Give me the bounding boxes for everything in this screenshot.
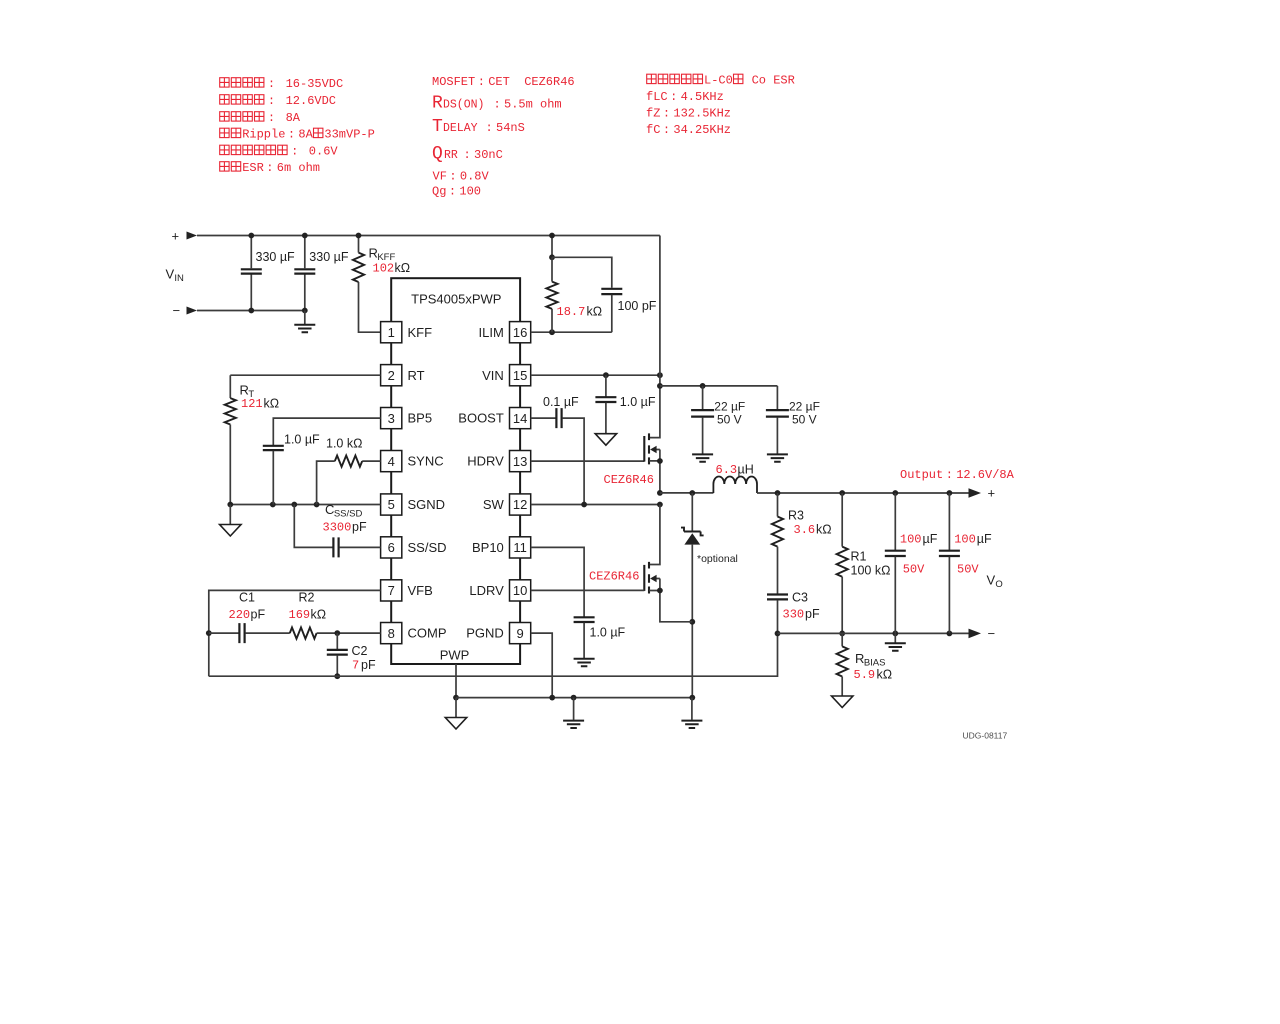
svg-text:4: 4 [388, 454, 395, 469]
svg-text:22 µF: 22 µF [714, 400, 745, 414]
svg-text::: : [288, 128, 295, 142]
pin 3 BP5 [381, 408, 402, 429]
resistor R2 169k [290, 628, 317, 639]
wire ILIM row [531, 331, 612, 333]
svg-text:fC: fC [646, 123, 660, 137]
svg-text:−: − [988, 626, 996, 641]
svg-text:+: + [172, 229, 180, 244]
svg-text:DELAY: DELAY [443, 122, 478, 135]
resistor SYNC 1.0k [362, 460, 380, 462]
svg-text:ESR: ESR [242, 161, 264, 175]
svg-text:12.6VDC: 12.6VDC [286, 94, 336, 108]
svg-text:VF: VF [433, 170, 447, 184]
wire PGND [531, 633, 553, 698]
svg-text:CEZ6R46: CEZ6R46 [589, 570, 639, 584]
svg-text:33mVP-P: 33mVP-P [324, 128, 374, 142]
svg-text::: : [449, 170, 456, 184]
svg-text:1.0 µF: 1.0 µF [590, 626, 626, 640]
svg-text:330 µF: 330 µF [256, 250, 296, 264]
svg-text:3: 3 [388, 411, 395, 426]
pin 13 HDRV [510, 451, 531, 472]
wire main drain rail [649, 236, 660, 438]
svg-text:0.1 µF: 0.1 µF [543, 395, 579, 409]
svg-text:fZ: fZ [646, 107, 660, 121]
svg-text:15: 15 [513, 368, 527, 383]
svg-text:12: 12 [513, 497, 527, 512]
svg-text:1: 1 [388, 325, 395, 340]
svg-text:V: V [987, 573, 996, 588]
pin 6 SS/SD [381, 537, 402, 558]
svg-text:5.5m ohm: 5.5m ohm [504, 98, 562, 112]
red annotation block: output filter specs [647, 74, 656, 83]
svg-text:100 kΩ: 100 kΩ [851, 564, 891, 578]
svg-text:pF: pF [251, 608, 266, 622]
red annotation block: input/output specs (Chinese) [220, 78, 229, 87]
ground diode (3-line) [691, 698, 693, 720]
svg-text:µF: µF [923, 532, 938, 546]
wire VIN row [531, 374, 660, 376]
pin 12 SW [510, 494, 531, 515]
svg-text:121: 121 [241, 397, 263, 411]
svg-text:100: 100 [900, 533, 922, 547]
wire inductor to output [757, 492, 969, 494]
svg-text:kΩ: kΩ [395, 261, 411, 275]
svg-text:12.6V/8A: 12.6V/8A [956, 468, 1014, 482]
svg-text:R2: R2 [299, 591, 315, 605]
svg-text::: : [268, 111, 275, 125]
capacitor C2 7pF [336, 633, 338, 649]
svg-text:T: T [432, 117, 443, 137]
svg-text:100: 100 [954, 533, 976, 547]
svg-text:1.0 kΩ: 1.0 kΩ [326, 436, 362, 450]
svg-text:kΩ: kΩ [816, 523, 832, 537]
node VIN- input arrow [187, 307, 198, 315]
svg-text:L-C0: L-C0 [704, 74, 733, 88]
pin 4 SYNC [381, 451, 402, 472]
capacitor 330uF #1 [250, 236, 252, 311]
svg-text:KFF: KFF [408, 325, 433, 340]
svg-text:6m ohm: 6m ohm [277, 161, 320, 175]
wire PWP stub [455, 664, 457, 698]
wire power ground rail [456, 697, 692, 699]
pin 1 KFF [381, 322, 402, 343]
svg-text:SYNC: SYNC [408, 454, 444, 469]
diode D1 schottky *optional [691, 493, 693, 531]
svg-text:10: 10 [513, 583, 527, 598]
svg-text:PGND: PGND [466, 626, 504, 641]
svg-text:220: 220 [229, 608, 251, 622]
wire LDRV row [531, 589, 645, 591]
svg-text:*optional: *optional [697, 553, 738, 565]
node VIN+ input arrow [187, 232, 198, 240]
capacitor 22uF #1 [702, 386, 704, 409]
pin 11 BP10 [510, 537, 531, 558]
svg-text:IN: IN [174, 273, 184, 284]
pin 10 LDRV [510, 580, 531, 601]
pin 9 PGND [510, 623, 531, 644]
svg-text:8A: 8A [298, 128, 313, 142]
capacitor 330uF #2 [304, 236, 306, 311]
svg-text::: : [268, 94, 275, 108]
svg-text:8: 8 [388, 626, 395, 641]
svg-text:9: 9 [516, 626, 523, 641]
svg-text:PWP: PWP [440, 648, 470, 663]
svg-text:0.6V: 0.6V [309, 145, 339, 159]
svg-text:1.0 µF: 1.0 µF [284, 433, 320, 447]
svg-text:3.6: 3.6 [794, 523, 816, 537]
svg-text:Ripple: Ripple [242, 128, 285, 142]
svg-text:kΩ: kΩ [877, 668, 893, 682]
svg-text:50 V: 50 V [717, 413, 742, 427]
svg-text:4.5KHz: 4.5KHz [681, 90, 724, 104]
capacitor CSS/SD 3300pF [294, 505, 332, 548]
svg-text::: : [663, 123, 670, 137]
inductor 6.3uH [713, 476, 757, 493]
transistor Q2 CEZ6R46 low-side [649, 505, 660, 565]
svg-text::: : [494, 98, 501, 112]
svg-text:kΩ: kΩ [311, 608, 327, 622]
svg-text:+: + [988, 486, 996, 501]
svg-text:UDG-08117: UDG-08117 [963, 731, 1008, 741]
capacitor BP10 1.0uF [531, 547, 584, 616]
svg-text::: : [464, 148, 471, 162]
svg-text:16-35VDC: 16-35VDC [286, 77, 344, 91]
svg-text:50 V: 50 V [792, 413, 817, 427]
capacitor 22uF #2 [776, 386, 778, 409]
svg-text:pF: pF [352, 520, 367, 534]
svg-text:330 µF: 330 µF [309, 250, 349, 264]
svg-text:R3: R3 [788, 509, 804, 523]
ground RBIAS (triangle) [832, 696, 853, 708]
svg-text:kΩ: kΩ [264, 397, 280, 411]
wire SW to inductor [657, 490, 663, 496]
svg-text:VIN: VIN [482, 368, 504, 383]
capacitor BP5 1.0uF [273, 418, 380, 445]
pin 14 BOOST [510, 408, 531, 429]
svg-text::: : [266, 161, 273, 175]
svg-text:LDRV: LDRV [469, 583, 504, 598]
wire input + rail [197, 235, 660, 237]
svg-text:102: 102 [373, 262, 395, 276]
svg-text:BOOST: BOOST [458, 411, 504, 426]
resistor RBIAS 5.9k [841, 633, 843, 646]
capacitor C1 220pF [209, 632, 239, 634]
svg-text:CET CEZ6R46: CET CEZ6R46 [488, 75, 574, 89]
svg-text::: : [486, 121, 493, 135]
ground power rail (3-line) [571, 695, 577, 701]
svg-text:7: 7 [388, 583, 395, 598]
svg-text:RT: RT [408, 368, 425, 383]
svg-text:Output: Output [900, 468, 943, 482]
svg-text:Q: Q [432, 144, 443, 164]
node output - arrow [969, 629, 982, 639]
resistor R1 100k [841, 493, 843, 547]
svg-text:6.3: 6.3 [716, 463, 738, 477]
pin 5 SGND [381, 494, 402, 515]
ground VIN cap (triangle) [595, 434, 616, 446]
svg-text::: : [663, 107, 670, 121]
svg-text:22 µF: 22 µF [789, 400, 820, 414]
svg-text:VFB: VFB [408, 583, 433, 598]
ground 100uF (3-line) [894, 633, 896, 642]
svg-text:C2: C2 [352, 644, 368, 658]
svg-text::: : [670, 90, 677, 104]
wire compensation ground rail [209, 633, 778, 676]
capacitor 100uF #2 [948, 493, 950, 550]
svg-text::: : [291, 145, 298, 159]
svg-text:13: 13 [513, 454, 527, 469]
svg-text:BP5: BP5 [408, 411, 433, 426]
svg-text:14: 14 [513, 411, 527, 426]
ground SGND (triangle) [229, 505, 231, 525]
wire input - rail [197, 310, 305, 312]
svg-text:11: 11 [513, 540, 527, 555]
svg-text:5.9: 5.9 [854, 668, 876, 682]
capacitor BOOST 0.1uF [531, 417, 556, 419]
svg-text:CEZ6R46: CEZ6R46 [604, 473, 654, 487]
svg-text::: : [946, 468, 953, 482]
resistor RKFF [358, 236, 360, 253]
svg-text:pF: pF [805, 607, 820, 621]
svg-text:HDRV: HDRV [467, 454, 504, 469]
node output + arrow [969, 488, 982, 498]
svg-text:C3: C3 [792, 591, 808, 605]
svg-text:1.0 µF: 1.0 µF [620, 395, 656, 409]
svg-text:TPS4005xPWP: TPS4005xPWP [411, 292, 501, 307]
svg-text:RR: RR [444, 149, 458, 162]
svg-text:MOSFET: MOSFET [432, 75, 475, 89]
wire RT row [230, 375, 380, 398]
svg-text:8A: 8A [286, 111, 301, 125]
resistor 18.7k [551, 236, 553, 258]
wire SW row [531, 504, 660, 506]
svg-text:0.8V: 0.8V [460, 170, 490, 184]
svg-text:DS(ON): DS(ON) [443, 99, 484, 112]
svg-text:µH: µH [738, 463, 754, 477]
ground input (3-line) [304, 311, 306, 325]
svg-text:3300: 3300 [323, 521, 352, 535]
svg-text:100: 100 [459, 185, 481, 199]
svg-text:50V: 50V [903, 563, 925, 577]
pin 7 VFB [381, 580, 402, 601]
svg-text:6: 6 [388, 540, 395, 555]
svg-text:7: 7 [352, 659, 359, 673]
svg-text:100 pF: 100 pF [618, 299, 657, 313]
pin 16 ILIM [510, 322, 531, 343]
ground PWP (triangle) [455, 698, 457, 718]
svg-text::: : [268, 77, 275, 91]
wire HDRV row [531, 460, 645, 462]
svg-text:16: 16 [513, 325, 527, 340]
svg-text:fLC: fLC [646, 90, 668, 104]
svg-text::: : [478, 75, 485, 89]
pin 8 COMP [381, 623, 402, 644]
svg-text:SS/SD: SS/SD [334, 508, 363, 519]
svg-text:R: R [432, 94, 443, 114]
wire SGND row [230, 504, 380, 506]
svg-text:kΩ: kΩ [587, 305, 603, 319]
svg-text:Co ESR: Co ESR [744, 74, 794, 88]
svg-text:COMP: COMP [408, 626, 447, 641]
svg-text:V: V [166, 267, 175, 282]
capacitor VIN 1.0uF [605, 375, 607, 396]
svg-text:5: 5 [388, 497, 395, 512]
svg-text:O: O [995, 579, 1002, 590]
pin 2 RT [381, 365, 402, 386]
svg-text:50V: 50V [957, 563, 979, 577]
svg-text:µF: µF [977, 532, 992, 546]
wire VFB loop [209, 590, 381, 676]
op-amp U1 TPS4005xPWP IC body [391, 278, 520, 664]
svg-text:SW: SW [483, 497, 505, 512]
svg-text:SGND: SGND [408, 497, 446, 512]
svg-text:−: − [173, 303, 181, 318]
resistor R3 3.6k [777, 493, 779, 517]
svg-text::: : [449, 185, 456, 199]
svg-text:330: 330 [783, 608, 805, 622]
svg-text:54nS: 54nS [496, 121, 525, 135]
svg-text:pF: pF [361, 658, 376, 672]
wire output - row [778, 632, 969, 634]
svg-text:R1: R1 [851, 550, 867, 564]
svg-text:169: 169 [289, 608, 311, 622]
capacitor 100uF #1 [894, 493, 896, 550]
svg-text:18.7: 18.7 [557, 305, 586, 319]
svg-text:30nC: 30nC [474, 148, 503, 162]
svg-text:SS/SD: SS/SD [408, 540, 447, 555]
svg-text:Qg: Qg [432, 185, 446, 199]
pin 15 VIN [510, 365, 531, 386]
svg-text:BP10: BP10 [472, 540, 504, 555]
resistor RT 121k [225, 398, 236, 424]
svg-text:132.5KHz: 132.5KHz [673, 107, 731, 121]
wire 22uF rail [657, 383, 663, 389]
capacitor C3 330pF [767, 595, 788, 600]
svg-text:C1: C1 [239, 591, 255, 605]
svg-text:ILIM: ILIM [479, 325, 504, 340]
capacitor 100pF [552, 257, 612, 288]
svg-text:2: 2 [388, 368, 395, 383]
svg-text:34.25KHz: 34.25KHz [673, 123, 731, 137]
transistor Q1 CEZ6R46 high-side [643, 436, 645, 462]
